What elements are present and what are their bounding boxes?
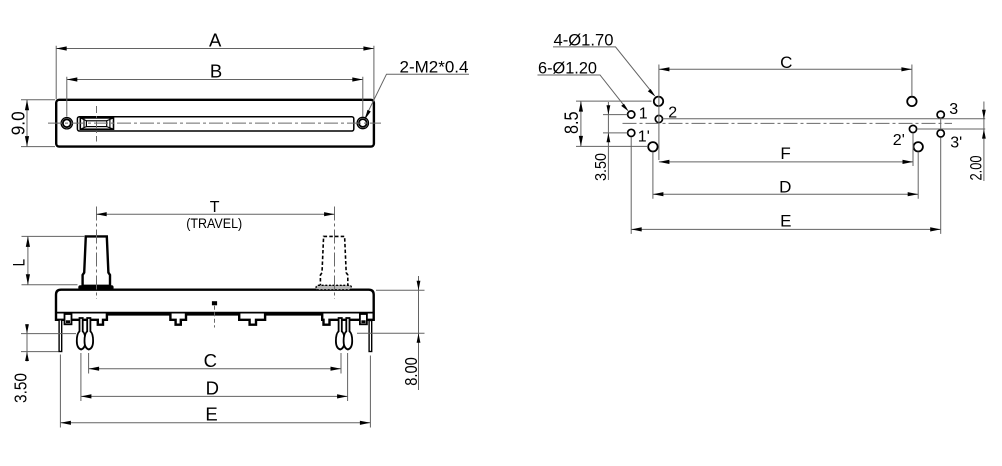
mount hole left (M2) xyxy=(63,119,71,127)
svg-text:D: D xyxy=(206,378,219,399)
dim 9.0 extension lines xyxy=(21,100,55,147)
pin hole 2' xyxy=(909,125,916,132)
mount hole BR (1.70) xyxy=(914,142,923,151)
svg-text:D: D xyxy=(779,177,791,196)
right knob shaft (phantom, dashed) xyxy=(320,236,347,285)
svg-text:F: F xyxy=(780,144,790,163)
dim F line xyxy=(659,161,913,163)
pin hole 2 xyxy=(655,115,662,122)
dim 3.50 pcb line xyxy=(607,102,609,180)
svg-text:2-M2*0.4: 2-M2*0.4 xyxy=(400,58,469,77)
dim C line xyxy=(89,368,341,370)
dim D pcb extension lines xyxy=(653,152,918,199)
svg-text:2': 2' xyxy=(893,132,905,149)
pin hole 3' xyxy=(937,130,944,137)
svg-text:8.00: 8.00 xyxy=(401,357,421,386)
thread circle right xyxy=(357,117,368,128)
dim 8.5 line xyxy=(580,101,582,146)
leader 2-M2*0.4 xyxy=(365,74,469,117)
svg-text:3': 3' xyxy=(950,135,962,152)
leader 6-1.20 underline and line xyxy=(538,75,627,108)
dim E extension lines xyxy=(60,355,370,428)
dim A line xyxy=(56,48,374,50)
slider track slot xyxy=(77,117,353,131)
svg-text:3: 3 xyxy=(949,101,958,118)
svg-text:C: C xyxy=(780,53,792,72)
left knob shaft xyxy=(83,236,110,285)
center hole mark on body xyxy=(212,301,217,305)
dim 8.00 line xyxy=(418,276,420,390)
pcb center line xyxy=(623,122,953,124)
mount hole right (M2) xyxy=(359,119,367,127)
dim C pcb line xyxy=(659,68,912,70)
dim 3.50 extension lines xyxy=(21,334,76,352)
dim D line xyxy=(81,395,348,397)
svg-text:E: E xyxy=(205,404,217,425)
dim D pcb line xyxy=(653,193,918,195)
dim E line xyxy=(60,422,370,424)
dim C extension lines xyxy=(89,353,341,374)
left mounting lug xyxy=(59,320,62,352)
pin hole 1' xyxy=(628,129,635,136)
svg-text:A: A xyxy=(209,30,222,51)
dim A extension lines xyxy=(56,46,374,100)
left knob center line xyxy=(96,207,98,300)
svg-text:L: L xyxy=(9,259,28,267)
thread circle left xyxy=(61,118,72,129)
leader 6-1.20 arrow xyxy=(621,104,629,112)
mount hole BL (1.70) xyxy=(648,142,657,151)
svg-text:4-Ø1.70: 4-Ø1.70 xyxy=(554,30,614,49)
right knob flange (phantom) xyxy=(316,285,351,290)
mount hole TL (1.70) xyxy=(654,97,663,106)
svg-text:9.0: 9.0 xyxy=(8,111,29,135)
terminal pin 2 (left inner) xyxy=(85,318,94,350)
3.50 pcb arrows xyxy=(607,105,611,114)
dim E pcb extension lines xyxy=(631,118,941,233)
right mounting lug xyxy=(369,321,372,352)
3.50 arrows xyxy=(25,324,29,333)
svg-text:E: E xyxy=(780,212,791,231)
dim 8.5 extension lines xyxy=(576,101,652,146)
svg-text:1': 1' xyxy=(638,128,650,145)
body center dashed line xyxy=(214,306,216,328)
mount hole TR (1.70) xyxy=(907,97,916,106)
thumb bevel lines xyxy=(80,118,113,129)
dim T line xyxy=(96,213,334,215)
pin2' row extension line xyxy=(917,128,985,130)
dim C pcb extension lines xyxy=(659,65,912,161)
svg-text:1: 1 xyxy=(639,106,648,123)
svg-text:3.50: 3.50 xyxy=(593,153,610,181)
svg-text:6-Ø1.20: 6-Ø1.20 xyxy=(538,58,597,77)
svg-text:C: C xyxy=(204,350,217,371)
dim L extension lines xyxy=(22,236,86,284)
terminal pin (right inner) xyxy=(336,318,345,350)
terminal pin (right outer) xyxy=(344,318,353,350)
left knob flange xyxy=(78,285,113,290)
dim 3.50 pcb extension lines xyxy=(603,115,627,133)
thumb vertical center line xyxy=(96,106,98,142)
pin hole 3 xyxy=(937,111,944,118)
svg-text:3.50: 3.50 xyxy=(11,373,31,403)
dim 9.0 line xyxy=(26,100,28,147)
left bracket tab with hole xyxy=(65,314,72,324)
dim B line xyxy=(67,79,363,81)
leader 4-1.70 arrow xyxy=(648,89,656,97)
terminal pin 1 (left outer) xyxy=(77,318,86,350)
svg-text:T: T xyxy=(210,199,220,216)
svg-text:2.00: 2.00 xyxy=(967,156,986,181)
dim F extension line right xyxy=(912,133,914,166)
8.00 arrows xyxy=(417,281,421,291)
dim 2.00 line xyxy=(983,102,985,182)
leader arrow xyxy=(365,110,371,120)
dim L line xyxy=(27,236,29,284)
dim 8.00 extension lines xyxy=(357,290,425,333)
svg-text:8.5: 8.5 xyxy=(562,111,583,134)
body top view xyxy=(56,100,374,147)
dim E pcb line xyxy=(631,228,941,230)
dim D extension lines xyxy=(81,353,348,401)
slider thumb inner xyxy=(86,121,106,127)
body with bottom flange profile xyxy=(56,290,374,325)
dim 3.50 line xyxy=(26,324,28,362)
svg-text:B: B xyxy=(210,61,222,82)
right bracket tab with hole xyxy=(360,314,367,324)
svg-text:(TRAVEL): (TRAVEL) xyxy=(186,216,242,231)
dim B extension lines xyxy=(67,77,363,117)
body/flange boundary line xyxy=(56,312,374,314)
slider thumb outer xyxy=(80,118,113,129)
pin2 row extension line xyxy=(663,118,986,120)
leader 4-1.70 underline and line xyxy=(553,47,653,93)
2.00 arrows xyxy=(982,110,986,119)
pin hole 1 xyxy=(628,111,635,118)
horizontal center line xyxy=(48,122,381,124)
svg-text:2: 2 xyxy=(668,104,677,121)
right knob center line xyxy=(334,207,336,300)
